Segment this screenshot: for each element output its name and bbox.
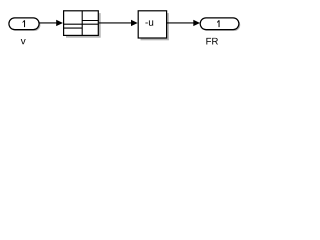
inport label v	[21, 39, 26, 44]
unary minus block U2 shadow	[141, 13, 169, 40]
outport port number 1	[217, 20, 220, 27]
arrowhead into Out1	[193, 20, 200, 26]
unary minus label -u	[145, 20, 153, 25]
outport block Out1 (oval with port number 1)	[200, 18, 239, 30]
inport block In1 shadow	[10, 19, 40, 31]
selector icon right-cell upper horizontal line	[82, 20, 98, 22]
arrowhead into Unary Minus	[131, 20, 138, 26]
selector icon full-width horizontal line	[64, 23, 99, 25]
wire from Unary Minus to Out1	[167, 22, 195, 24]
inport port number 1	[23, 20, 26, 27]
unary minus block U2 body	[138, 11, 166, 38]
selector block U1 shadow	[66, 13, 101, 38]
arrowhead into Selector	[56, 20, 63, 26]
outport block Out1 shadow	[202, 19, 241, 31]
wire from Selector to Unary Minus	[99, 22, 132, 24]
wire from In1 to Selector	[39, 22, 57, 24]
outport label FR	[206, 38, 218, 45]
selector icon vertical divider	[81, 11, 83, 36]
selector icon left-cell lower horizontal line	[64, 27, 83, 29]
inport block In1 (oval with port number 1)	[9, 18, 39, 30]
selector block U1 body	[64, 11, 99, 36]
